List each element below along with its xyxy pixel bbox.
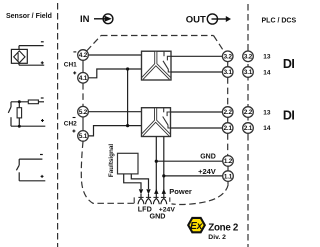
junction node on wire 5.1	[126, 124, 129, 127]
svg-text:2.1: 2.1	[244, 125, 253, 132]
PLC/DCS boundary dashed line	[247, 4, 249, 247]
svg-text:PLC / DCS: PLC / DCS	[262, 17, 297, 24]
terminal 5.1	[78, 131, 89, 142]
faultsignal box K1	[118, 153, 139, 174]
OUT icon (arrow out of circle)	[207, 14, 226, 24]
junction node bottom S2	[18, 125, 21, 128]
svg-text:CH1: CH1	[64, 61, 77, 68]
svg-text:1.2: 1.2	[224, 158, 233, 165]
boundary dashed 3.1-2.2	[227, 77, 229, 106]
minus mark CH1	[73, 51, 76, 53]
svg-text:OUT: OUT	[186, 14, 206, 25]
arrow down LFD b	[146, 189, 150, 194]
svg-text:3.1: 3.1	[244, 69, 253, 76]
NAMUR equivalent circuit S2 (switch with resistors)	[8, 100, 45, 126]
socket fork LFD a	[138, 199, 144, 205]
terminal 1.2	[223, 156, 234, 167]
device boundary top dashed	[87, 36, 224, 52]
junction node top S2	[18, 100, 21, 103]
device boundary left chain	[82, 60, 84, 72]
proximity sensor B1 (NAMUR)	[11, 46, 44, 66]
boundary segment 2.2-2.1	[227, 117, 229, 122]
wire top left	[11, 101, 28, 103]
boundary dashed 2.1-1.2	[227, 133, 229, 155]
junction node +24V rail	[162, 174, 165, 177]
wire U1 to terminal 3.1	[171, 71, 222, 73]
stub below terminal 1.1	[227, 181, 229, 184]
svg-text:3.1: 3.1	[224, 69, 233, 76]
arrow up +24V	[162, 189, 166, 194]
wire U2 to terminal 2.2	[171, 111, 223, 113]
plus mark sensor B1	[41, 61, 44, 64]
boundary tick right of power terminals	[169, 197, 171, 201]
wire 4.2 to isolator U1	[88, 54, 141, 56]
svg-text:Power: Power	[169, 187, 192, 196]
boundary tick left of power terminals	[133, 197, 135, 203]
arrow down LFD a	[139, 189, 143, 194]
minus mark S2	[41, 97, 44, 99]
plus mark CH1	[73, 71, 76, 74]
socket fork GND	[153, 199, 159, 205]
terminal 3.1	[222, 67, 233, 78]
terminal 2.2	[222, 107, 233, 118]
socket fork +24V	[161, 199, 167, 205]
svg-text:13: 13	[263, 109, 271, 116]
wire GND to terminal 1.2	[156, 160, 223, 162]
svg-text:5.1: 5.1	[79, 133, 88, 140]
boundary segment 1.2-1.1	[227, 166, 229, 171]
svg-text:13: 13	[263, 54, 271, 61]
minus mark S3	[40, 154, 43, 156]
wire U2 to terminal 2.1	[171, 127, 223, 129]
svg-text:2.2: 2.2	[224, 109, 233, 116]
device boundary bottom-right dashed curve	[172, 185, 229, 205]
plus mark S2	[41, 119, 44, 122]
PLC terminal 2.2	[243, 107, 254, 118]
svg-text:3.2: 3.2	[224, 54, 233, 61]
plus mark S3	[41, 175, 44, 178]
PLC terminal 3.2	[243, 51, 254, 62]
junction node GND rail	[155, 160, 158, 163]
svg-text:DI: DI	[283, 57, 294, 71]
arrow up GND	[154, 189, 158, 194]
socket fork LFD b	[146, 199, 152, 205]
svg-text:GND: GND	[150, 211, 166, 220]
svg-text:Faultsignal: Faultsignal	[108, 144, 115, 177]
svg-text:GND: GND	[200, 154, 216, 161]
wire 5.1 to isolator U2 (jog)	[88, 126, 141, 136]
resistor R2 vertical	[18, 102, 20, 108]
svg-text:4.1: 4.1	[79, 75, 88, 82]
svg-text:CH2: CH2	[64, 120, 77, 127]
sensor/field boundary dashed line	[57, 3, 59, 247]
PLC terminal 2.1	[243, 123, 254, 134]
wire bottom	[11, 125, 45, 127]
boundary segment 3.2-3.1	[227, 62, 229, 67]
wire 4.1 to isolator U1 (jog)	[88, 69, 141, 78]
terminal 5.2	[78, 106, 89, 117]
svg-text:DI: DI	[283, 109, 294, 123]
IN icon (arrow into circle)	[94, 14, 113, 24]
terminal 2.1	[222, 123, 233, 134]
terminal 3.2	[222, 51, 233, 62]
svg-text:IN: IN	[80, 14, 90, 25]
svg-text:Ex: Ex	[190, 221, 203, 232]
isolator U1	[142, 51, 172, 80]
wire 5.2 to isolator U2	[88, 111, 141, 113]
svg-text:2.2: 2.2	[244, 109, 253, 116]
svg-text:+24V: +24V	[198, 167, 216, 176]
wire K1 to LFD terminal a	[124, 174, 141, 199]
terminal 4.1	[78, 73, 89, 84]
svg-text:1.1: 1.1	[224, 173, 233, 180]
common bus wire between channels	[127, 69, 129, 126]
wire top right	[38, 101, 44, 103]
terminal 1.1	[223, 171, 234, 182]
wire U1 to terminal 3.2	[171, 55, 222, 57]
boundary dashes through terminal row	[138, 196, 166, 198]
resistor R1 horizontal	[28, 100, 38, 104]
power rail GND from U2	[155, 137, 157, 199]
wire +24V to terminal 1.1	[164, 175, 223, 177]
junction node on wire 4.1	[126, 67, 129, 70]
device boundary bottom-left dashed curve	[81, 142, 134, 204]
svg-text:5.2: 5.2	[79, 109, 88, 116]
power rail +24V from U2	[163, 137, 165, 199]
svg-text:14: 14	[263, 125, 271, 132]
minus mark sensor B1	[41, 41, 44, 43]
Ex logo	[188, 218, 205, 232]
terminal 4.2	[78, 50, 89, 61]
svg-text:2.1: 2.1	[224, 125, 233, 132]
svg-text:Zone 2: Zone 2	[208, 222, 239, 233]
svg-text:Sensor / Field: Sensor / Field	[6, 13, 52, 20]
switch contact S3	[16, 159, 45, 181]
svg-text:3.2: 3.2	[244, 54, 253, 61]
wire K1 to LFD terminal b	[131, 174, 148, 199]
isolator U2	[142, 108, 171, 137]
minus mark CH2	[73, 117, 76, 119]
plus mark CH2	[72, 130, 75, 133]
svg-text:14: 14	[263, 69, 271, 76]
svg-text:4.2: 4.2	[79, 52, 88, 59]
PLC terminal 3.1	[243, 67, 254, 78]
svg-text:Div. 2: Div. 2	[208, 234, 226, 241]
switch S2	[10, 102, 12, 107]
